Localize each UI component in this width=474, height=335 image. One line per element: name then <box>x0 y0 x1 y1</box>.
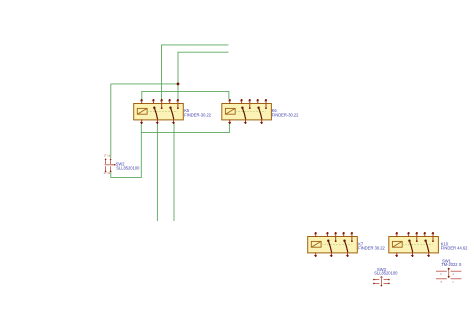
svg-text:FINDER-30.22: FINDER-30.22 <box>184 112 212 117</box>
relay K7 <box>308 232 358 257</box>
svg-text:SLL8520100: SLL8520100 <box>116 166 140 171</box>
svg-text:a: a <box>441 280 443 284</box>
relay K10 <box>389 232 439 257</box>
wire from K5 contact1 common going down <box>156 123 158 221</box>
switch SW1 symbol <box>436 269 461 279</box>
relay K6 <box>222 99 272 124</box>
svg-text:a: a <box>453 272 455 276</box>
svg-text:c: c <box>453 280 455 284</box>
svg-text:b: b <box>441 272 443 276</box>
svg-text:FINDER-30.22: FINDER-30.22 <box>272 112 300 117</box>
svg-text:2T 2d: 2T 2d <box>104 171 111 175</box>
switch SW2 symbol <box>105 160 115 172</box>
wire down to SW2 top pin <box>110 84 112 158</box>
wire linking K5 coil bottom to K6 coil bottom <box>141 123 229 133</box>
wire net from top bus 1 to relay K5 pin (x161.5) <box>162 45 229 100</box>
wire from K5 contact2 common going down <box>173 123 175 221</box>
wire net from top bus 2 through junction to relay K5 pin (x178) <box>178 52 229 100</box>
svg-text:SLL8520100: SLL8520100 <box>374 270 398 275</box>
svg-text:TM-2022 S: TM-2022 S <box>441 262 462 267</box>
SW1 pin letters <box>441 272 455 284</box>
relay K5 <box>134 99 184 124</box>
svg-text:FINDER 30.22: FINDER 30.22 <box>358 246 385 251</box>
junction dot <box>177 83 180 86</box>
switch SW3 symbol <box>374 276 388 286</box>
svg-text:FINDER 44.62: FINDER 44.62 <box>441 246 468 251</box>
wire from SW2 corner to junction <box>111 83 178 85</box>
wire linking K5 coil top to K6 coil top <box>142 91 229 99</box>
svg-text:1T 1d: 1T 1d <box>104 154 111 158</box>
wire SW2 bottom pin to K5 coil bottom <box>111 123 142 177</box>
